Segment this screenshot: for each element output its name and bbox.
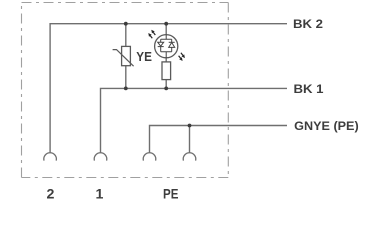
svg-text:2: 2	[47, 187, 55, 203]
svg-text:GNYE (PE): GNYE (PE)	[294, 119, 359, 133]
svg-text:YE: YE	[136, 49, 152, 64]
svg-text:PE: PE	[163, 187, 178, 202]
svg-text:BK 1: BK 1	[294, 82, 324, 96]
svg-text:1: 1	[96, 187, 104, 203]
svg-text:BK 2: BK 2	[293, 17, 323, 31]
